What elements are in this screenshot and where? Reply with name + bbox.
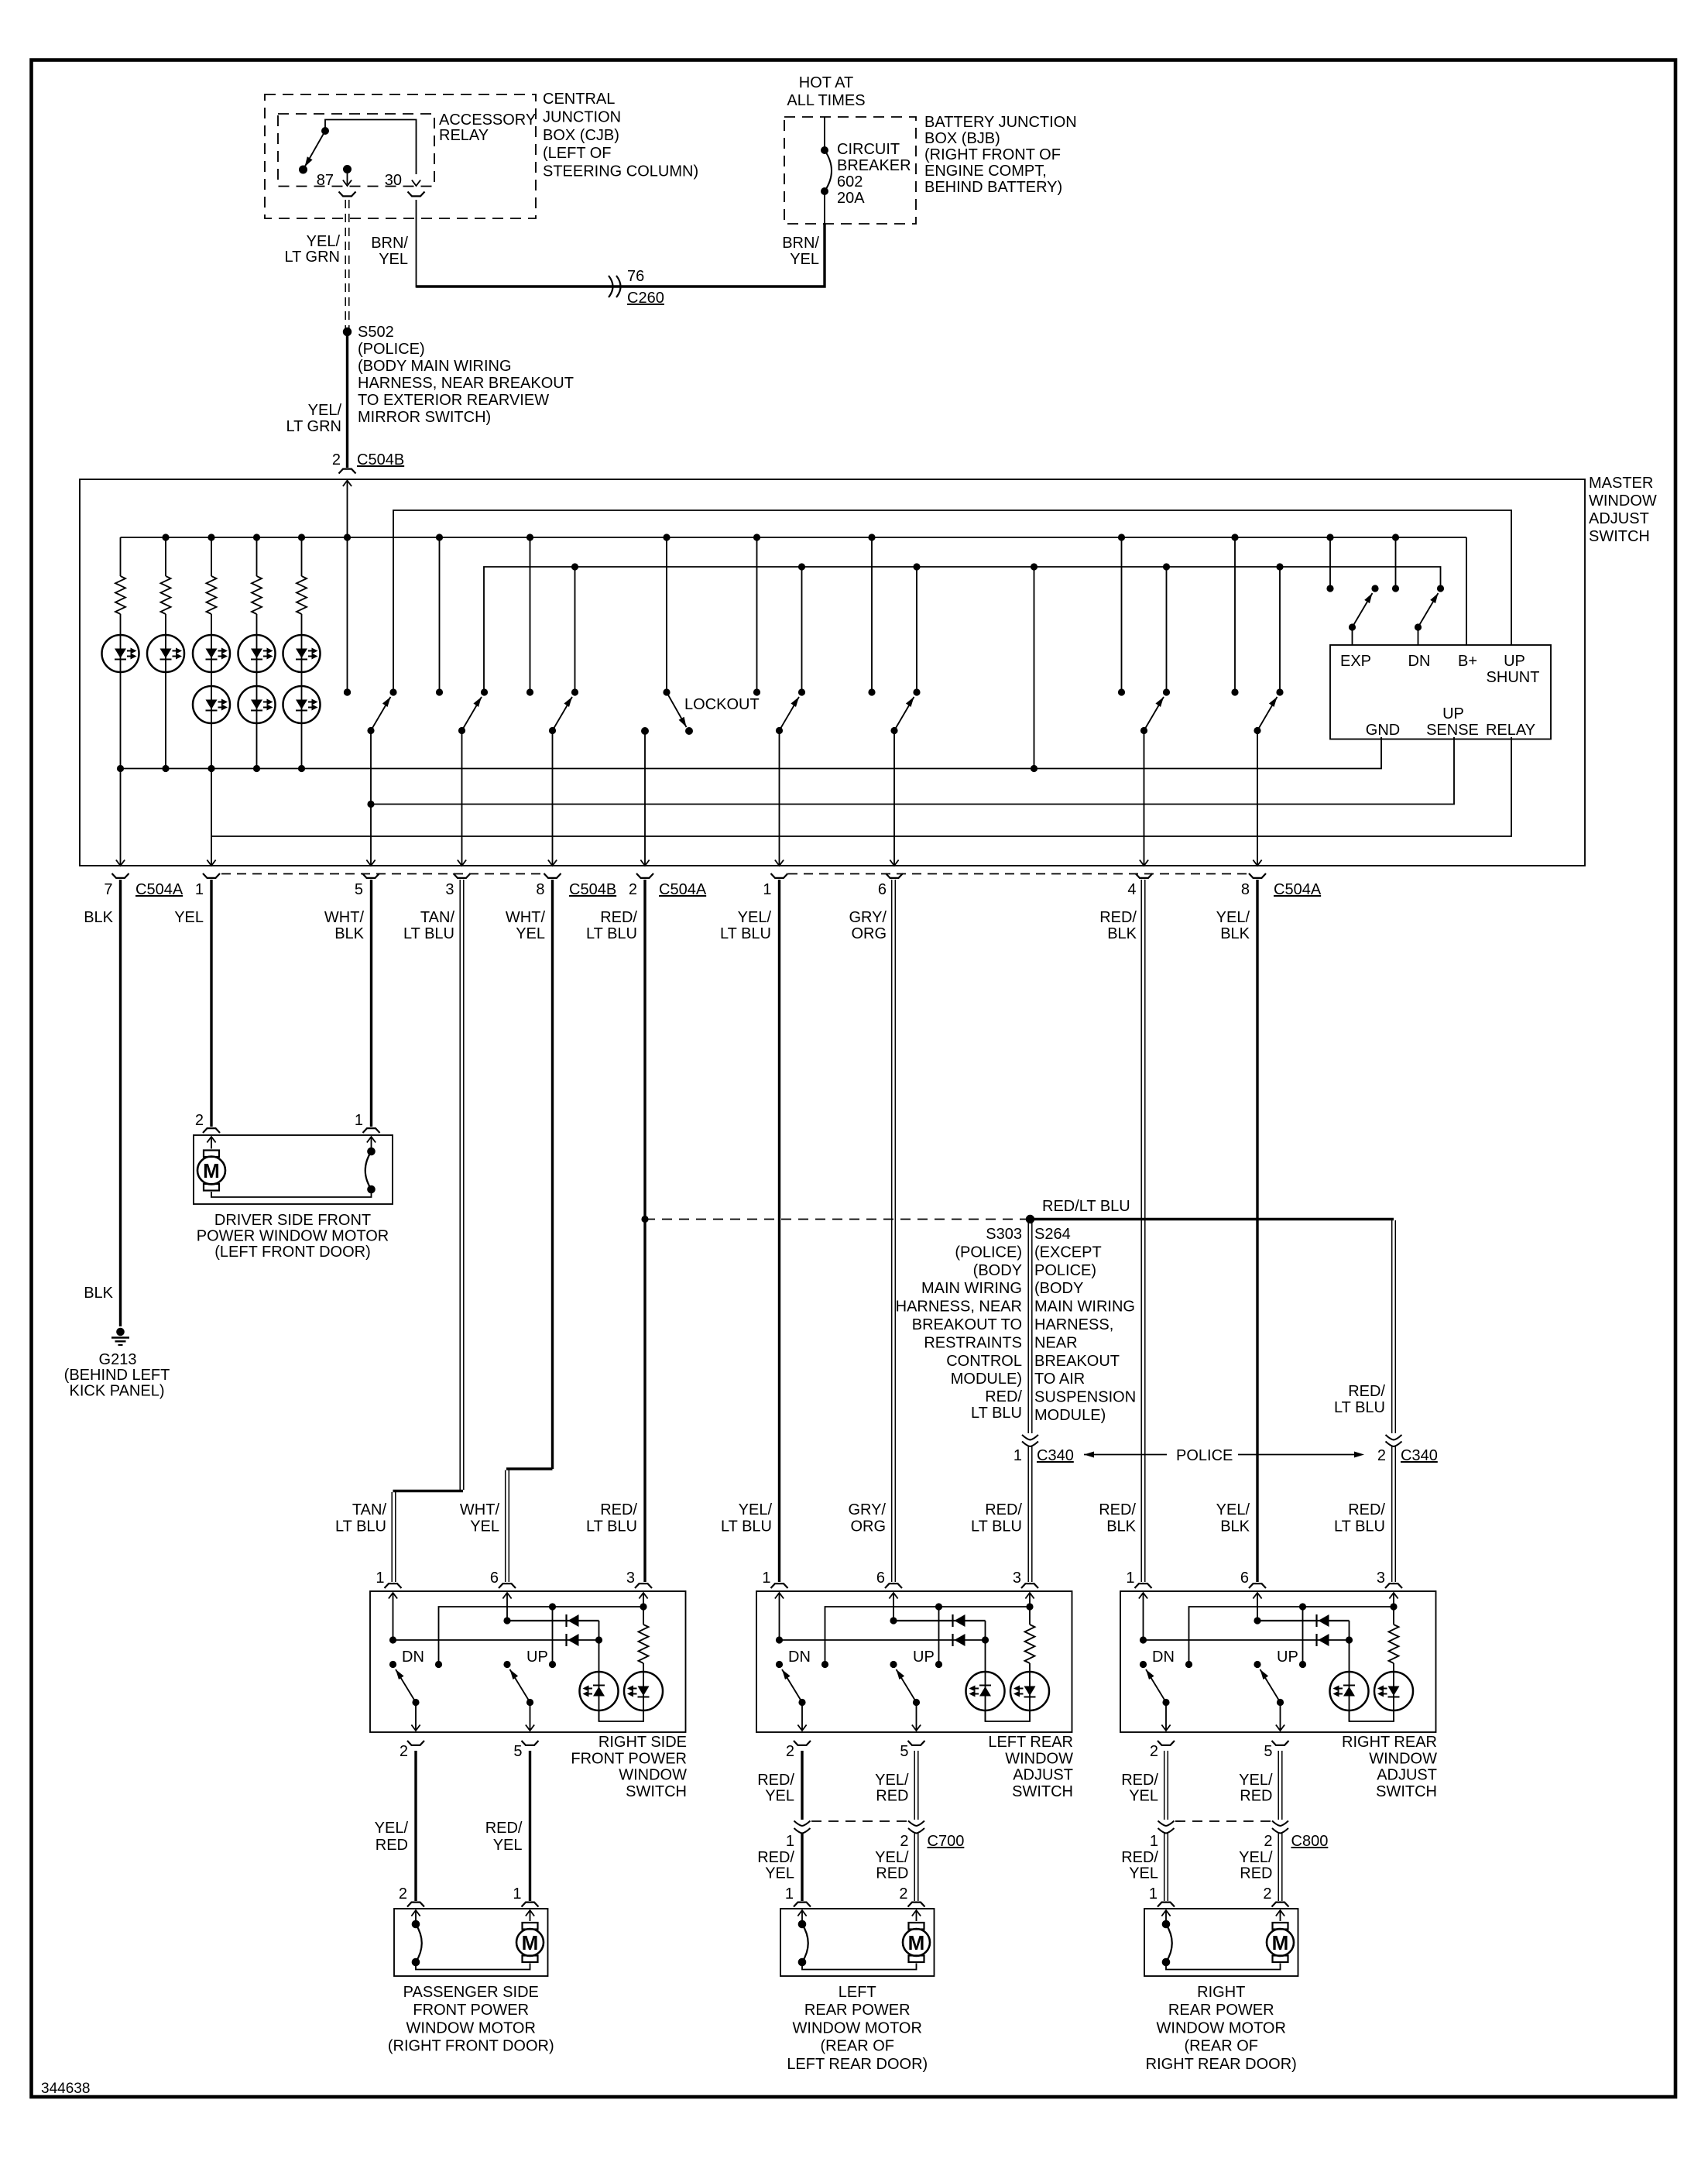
illumination LED D1 row1 [120,614,122,769]
relay line [211,737,1511,836]
relay pin 87 arrow [347,173,348,184]
switch s3 arm [553,697,573,731]
svg-text:BLK: BLK [1220,925,1250,942]
connector dashed line C504B group [221,873,543,875]
left rear motor box [780,1909,935,1976]
svg-text:EXP: EXP [1340,653,1371,670]
passenger front motor pin left bracket [407,1903,424,1907]
svg-text:LT BLU: LT BLU [335,1518,386,1535]
entry wire contact dot [344,688,351,695]
svg-text:LT GRN: LT GRN [285,249,341,266]
svg-text:S502: S502 [358,324,394,341]
up-sense line [371,737,1454,805]
svg-text:KICK PANEL): KICK PANEL) [70,1383,165,1400]
junction dot at ground bus [1031,765,1037,772]
svg-text:C504B: C504B [569,881,616,898]
svg-text:DN: DN [1152,1649,1175,1666]
right rear window switch box [1120,1591,1436,1732]
switch s5 right contact riser [916,567,917,692]
svg-text:LT BLU: LT BLU [1334,1399,1385,1416]
master pin 7 bracket x155 [112,873,129,878]
svg-text:LOCKOUT: LOCKOUT [684,696,760,713]
wire BLK to ground [119,880,122,1326]
switch s3 wire to pin [552,731,554,866]
wire above C800 left [1164,1751,1165,1820]
svg-text:344638: 344638 [41,2081,90,2097]
svg-text:(POLICE): (POLICE) [358,341,425,358]
master pin 5 bracket x479 [362,873,379,878]
driver motor pin2 entry arrow [207,1137,215,1143]
svg-text:(POLICE): (POLICE) [955,1244,1022,1261]
master pin 8 bracket x1624 [1249,873,1266,878]
svg-text:STEERING COLUMN): STEERING COLUMN) [543,163,698,180]
switch s1 pivot [367,727,374,734]
right rear window switch led bottom link [1350,1710,1394,1721]
svg-text:RED/: RED/ [600,1501,637,1518]
svg-text:RED: RED [376,1837,408,1854]
illumination LED D6 row2 [193,686,230,723]
svg-text:BLK: BLK [1220,1518,1250,1535]
svg-text:7: 7 [104,881,112,898]
left rear window switch pin1 entry arrow [775,1593,784,1599]
switch s1 wire to pin [370,731,372,866]
switch s4 pivot [776,727,783,734]
switch s5 left contact riser [871,537,873,692]
svg-text:HOT AT: HOT AT [799,74,853,91]
svg-text:RED/: RED/ [600,909,637,926]
svg-text:ORG: ORG [850,1518,886,1535]
right rear window switch pin2 exit wire [1165,1703,1167,1731]
right front window switch box [370,1591,686,1732]
svg-text:RED/LT BLU: RED/LT BLU [1042,1198,1130,1215]
connector dashed line C504A group [788,873,1249,875]
svg-text:BOX (CJB): BOX (CJB) [543,127,619,144]
svg-text:1: 1 [1126,1570,1134,1587]
wire down from splice to 1 C340 [1027,1220,1029,1433]
svg-text:C260: C260 [627,290,664,307]
svg-text:WINDOW: WINDOW [1369,1750,1437,1767]
svg-text:YEL: YEL [174,909,204,926]
svg-text:RIGHT REAR: RIGHT REAR [1342,1734,1437,1751]
switch s6 wire to pin [1144,731,1145,866]
svg-text:3: 3 [445,881,454,898]
master pin 8 bracket x713 [544,873,561,878]
relay switch K1 wire to pin 30 [325,120,417,175]
svg-text:LEFT REAR: LEFT REAR [988,1734,1073,1751]
svg-text:2: 2 [1377,1447,1386,1464]
circuit breaker CB602 [821,146,828,154]
wire YEL/RED right front switch pin2 to motor [414,1751,417,1901]
svg-text:C340: C340 [1037,1447,1074,1464]
svg-text:RELAY: RELAY [1486,722,1535,739]
svg-text:RED/: RED/ [1348,1501,1385,1518]
svg-text:6: 6 [1240,1570,1249,1587]
svg-text:SWITCH: SWITCH [1376,1783,1437,1800]
left rear window switch DN indicator LED [966,1672,1005,1710]
right front window switch led bottom link [599,1710,644,1721]
left rear motor right entry arrow [912,1910,921,1916]
svg-text:2: 2 [1150,1743,1158,1760]
svg-text:RED/: RED/ [1099,1501,1136,1518]
svg-text:(LEFT FRONT DOOR): (LEFT FRONT DOOR) [214,1244,370,1261]
wire below C700 right [914,1834,915,1902]
switch s4 right contact riser [801,567,803,692]
illumination LED D5 row1 [301,614,303,769]
illumination LED D2 row1 [165,614,166,769]
svg-text:CONTROL: CONTROL [946,1353,1022,1370]
wire second bus to ground bus [1034,567,1035,769]
svg-text:SUSPENSION: SUSPENSION [1034,1389,1136,1406]
wire pin30 down to BRN/YEL run [416,200,417,288]
switch s7 left contact riser [1234,537,1236,692]
svg-text:RED/: RED/ [1348,1383,1385,1400]
left rear window switch up contact riser [938,1607,940,1665]
svg-text:4: 4 [1127,881,1136,898]
svg-text:(RIGHT FRONT OF: (RIGHT FRONT OF [924,146,1061,163]
left rear motor motor M symbol [909,1923,924,1930]
wire WHT/YEL with jog [551,880,554,1469]
illumination LED D4 row1 [256,614,258,769]
svg-text:LT BLU: LT BLU [1334,1518,1385,1535]
svg-text:MASTER: MASTER [1589,475,1653,492]
svg-text:1: 1 [762,1570,770,1587]
master pin 6 bracket x1155 [886,873,903,878]
svg-text:WINDOW MOTOR: WINDOW MOTOR [406,2019,536,2036]
right rear window switch UP indicator LED [1374,1672,1413,1710]
junction dot entry wire at top bus [344,534,351,540]
svg-text:LT GRN: LT GRN [286,418,342,435]
svg-text:76: 76 [627,268,644,285]
right rear window switch dn diode line [1144,1639,1350,1641]
svg-text:MIRROR SWITCH): MIRROR SWITCH) [358,409,491,426]
pin 87 connector bracket [339,192,356,197]
svg-text:BOX (BJB): BOX (BJB) [924,130,1000,147]
up-shunt inner line [393,510,1511,692]
C800 dashed separator [1175,1820,1271,1822]
svg-text:YEL/: YEL/ [1216,1501,1250,1518]
driver side front power window motor box [194,1135,393,1204]
driver motor pin 1 bracket [363,1128,380,1133]
wire YEL to driver motor pin 2 [210,880,212,1127]
switch s2 right contact riser [481,688,488,695]
svg-text:GND: GND [1366,722,1400,739]
svg-text:RED/: RED/ [757,1849,794,1866]
switch s5 pivot [890,727,897,734]
illumination LED D3 row1 [211,614,212,769]
svg-text:REAR POWER: REAR POWER [804,2002,911,2019]
svg-text:6: 6 [490,1570,499,1587]
svg-text:(REAR OF: (REAR OF [1184,2038,1258,2055]
left rear window switch pin 3 bracket [1021,1583,1038,1588]
master window adjust switch box [80,479,1585,866]
svg-text:BRN/: BRN/ [371,235,408,252]
svg-text:B+: B+ [1458,653,1477,670]
svg-text:JUNCTION: JUNCTION [543,108,621,125]
svg-text:602: 602 [837,173,863,190]
svg-text:LT BLU: LT BLU [721,1518,772,1535]
svg-text:5: 5 [1264,1743,1272,1760]
indicator resistor R4 [256,537,258,576]
svg-text:2: 2 [786,1743,794,1760]
svg-text:BLK: BLK [1106,1518,1136,1535]
switch s6 pivot [1140,727,1147,734]
left rear window switch pin 6 bracket [885,1583,902,1588]
svg-text:LT BLU: LT BLU [720,925,771,942]
switch s7 arm [1257,697,1278,731]
svg-text:(BEHIND LEFT: (BEHIND LEFT [64,1367,170,1384]
passenger front motor pin right bracket [522,1903,539,1907]
svg-text:1: 1 [355,1112,363,1129]
right front window switch indicator resistor [643,1607,644,1625]
svg-text:1: 1 [513,1885,521,1903]
wire above C800 right [1278,1751,1279,1820]
C504B top connector bracket [339,469,356,474]
right rear motor right entry arrow [1276,1910,1284,1916]
right rear window switch pin3 entry arrow [1389,1593,1398,1599]
wire RED/LT BLU to right front switch [643,880,646,1582]
svg-text:C504A: C504A [135,881,183,898]
svg-text:LT BLU: LT BLU [586,925,637,942]
right rear window switch pin 3 bracket [1385,1583,1402,1588]
right front window switch led feed wire [598,1621,600,1721]
svg-text:TAN/: TAN/ [420,909,455,926]
wire YEL/LT BLU to left rear switch [778,880,780,1582]
svg-text:ENGINE COMPT,: ENGINE COMPT, [924,163,1047,180]
left rear window switch pin 5 bracket below [908,1741,925,1745]
svg-text:MAIN WIRING: MAIN WIRING [921,1280,1022,1297]
svg-text:UP: UP [1442,705,1464,722]
right rear window switch pin6 entry arrow [1253,1593,1261,1599]
exp pin wire [1352,627,1353,645]
right front window switch pin2 exit wire [415,1703,417,1731]
right rear window switch pin5 exit wire [1280,1703,1281,1731]
svg-text:YEL/: YEL/ [875,1849,909,1866]
police arrow left [1084,1454,1167,1456]
svg-text:BREAKOUT TO: BREAKOUT TO [912,1316,1022,1333]
svg-text:RIGHT: RIGHT [1197,1984,1245,2001]
svg-text:RIGHT REAR DOOR): RIGHT REAR DOOR) [1146,2056,1297,2073]
svg-text:ADJUST: ADJUST [1013,1767,1073,1784]
svg-text:RED: RED [1240,1865,1272,1882]
svg-text:LT BLU: LT BLU [971,1405,1022,1422]
svg-text:5: 5 [900,1743,908,1760]
C800 chevrons left [1158,1821,1175,1827]
svg-text:WINDOW MOTOR: WINDOW MOTOR [793,2019,922,2036]
svg-text:5: 5 [355,881,363,898]
left rear motor internal link [802,1962,917,1970]
left rear window switch UP switch [890,1661,897,1668]
svg-text:1: 1 [786,1833,794,1850]
svg-text:HARNESS, NEAR: HARNESS, NEAR [896,1299,1022,1316]
wire lockout to pin 2 [644,731,646,866]
svg-text:BLK: BLK [334,925,364,942]
svg-text:WINDOW MOTOR: WINDOW MOTOR [1157,2019,1286,2036]
svg-text:DN: DN [1408,653,1431,670]
switch s6 right contact riser [1166,567,1168,692]
svg-text:DN: DN [788,1649,811,1666]
right rear motor pin right bracket [1272,1903,1289,1907]
left rear window switch pin2 exit wire [801,1703,803,1731]
splice S264/S303 dot [1026,1215,1034,1223]
svg-text:MODULE): MODULE) [951,1371,1022,1388]
right rear window switch indicator resistor [1393,1607,1394,1625]
right rear window switch led feed wire [1349,1621,1350,1721]
svg-text:YEL: YEL [765,1865,794,1882]
svg-text:RED/: RED/ [985,1388,1022,1405]
svg-text:ORG: ORG [851,925,887,942]
svg-text:2: 2 [900,1833,908,1850]
master pin 3 bracket x596 [454,873,471,878]
svg-text:UP: UP [913,1649,935,1666]
svg-text:87: 87 [317,172,334,189]
svg-text:SWITCH: SWITCH [1589,528,1650,545]
B+ riser wire [1466,537,1467,645]
right rear motor internal link [1166,1962,1281,1970]
svg-text:2: 2 [332,451,341,468]
wire 2 C340 to right rear switch pin 3 [1391,1446,1393,1582]
junction dot top bus col4 [253,534,260,540]
svg-text:2: 2 [1264,1833,1272,1850]
svg-text:CENTRAL: CENTRAL [543,91,615,108]
svg-text:ALL TIMES: ALL TIMES [787,92,865,109]
svg-text:SHUNT: SHUNT [1487,669,1540,686]
C700 chevrons left [794,1821,811,1827]
switch s5 wire to pin [893,731,895,866]
svg-text:C504A: C504A [659,881,707,898]
svg-text:MAIN WIRING: MAIN WIRING [1034,1299,1135,1316]
svg-text:1: 1 [763,881,771,898]
switch s2 arm [462,697,482,731]
wire below C700 left [801,1834,803,1902]
dn switch arm [1418,593,1439,627]
right rear window switch pin1 entry arrow [1139,1593,1147,1599]
wire YEL/LT GRN dashed (police) pin87 to S502 [345,200,346,328]
svg-text:YEL/: YEL/ [875,1772,909,1789]
right front window switch pin 5 bracket below [522,1741,539,1745]
svg-text:LT BLU: LT BLU [403,925,454,942]
left rear motor left entry arrow [797,1910,806,1916]
svg-text:3: 3 [626,1570,635,1587]
right front window switch pin6 entry arrow [502,1593,511,1599]
window lift relay sub-box [1330,645,1551,739]
right rear window switch UP switch [1254,1661,1260,1668]
right front window switch top internal bus [439,1607,644,1665]
svg-text:(BODY MAIN WIRING: (BODY MAIN WIRING [358,358,512,375]
svg-text:UP: UP [526,1649,548,1666]
svg-text:WINDOW: WINDOW [1589,492,1657,510]
svg-text:POLICE: POLICE [1176,1447,1233,1464]
right rear window switch pin 1 bracket [1135,1583,1152,1588]
driver motor M1 symbol [204,1151,219,1158]
wire YEL/LT GRN S502 to C504B [346,332,348,468]
right rear motor box [1144,1909,1298,1976]
svg-text:M: M [522,1931,539,1954]
svg-text:GRY/: GRY/ [848,1501,886,1518]
exp switch arm [1353,593,1373,627]
exp switch contact risers [1329,537,1331,588]
indicator resistor R5 [301,537,303,576]
svg-text:RED/: RED/ [757,1772,794,1789]
svg-text:RED: RED [876,1865,908,1882]
svg-text:PASSENGER SIDE: PASSENGER SIDE [403,1984,539,2001]
svg-text:G213: G213 [99,1351,137,1368]
right front window switch pin 1 bracket [385,1583,402,1588]
svg-text:BREAKOUT: BREAKOUT [1034,1353,1120,1370]
svg-text:DN: DN [402,1649,424,1666]
svg-text:1: 1 [195,881,204,898]
left rear window switch dn diode line [780,1639,986,1641]
svg-text:RESTRAINTS: RESTRAINTS [924,1334,1022,1351]
wire below C800 right [1278,1834,1279,1902]
wire BRN/YEL from breaker to C260 [824,191,825,224]
svg-text:SENSE: SENSE [1426,722,1479,739]
svg-text:1: 1 [1013,1447,1022,1464]
passenger front motor switch arc [412,1920,420,1929]
svg-text:MODULE): MODULE) [1034,1407,1106,1424]
svg-text:RED: RED [876,1788,908,1805]
svg-text:YEL: YEL [790,251,819,268]
svg-text:C340: C340 [1401,1447,1438,1464]
svg-text:(RIGHT FRONT DOOR): (RIGHT FRONT DOOR) [388,2038,554,2055]
right rear window switch DN switch [1140,1661,1147,1668]
switch s4 left contact riser [756,537,758,692]
svg-text:(EXCEPT: (EXCEPT [1034,1244,1102,1261]
svg-text:C700: C700 [928,1833,965,1850]
svg-text:8: 8 [1241,881,1250,898]
svg-text:6: 6 [876,1570,885,1587]
left rear window switch box [756,1591,1072,1732]
right rear motor left entry arrow [1161,1910,1170,1916]
CJB dashed box (central junction box) [265,94,536,218]
indicator resistor R1 [120,537,122,576]
right front window switch pin1 entry arrow [389,1593,397,1599]
driver motor internal link [211,1189,372,1197]
svg-text:UP: UP [1277,1649,1298,1666]
wire above C700 left [801,1751,803,1820]
dashed branch wire to splice [645,1219,1026,1220]
right rear window switch top internal bus [1189,1607,1394,1665]
right front window switch pin5 exit wire [530,1703,531,1731]
svg-text:BLK: BLK [84,1285,113,1302]
right rear window switch pin 5 bracket below [1272,1741,1289,1745]
junction dot on RED/LT BLU wire [641,1216,648,1223]
svg-text:BLK: BLK [1107,925,1137,942]
left rear window switch up diode line [893,1620,986,1621]
relay pin 87 dot [343,165,352,173]
wire WHT/BLK to driver motor pin 1 [370,880,372,1127]
thick branch wire right [1031,1218,1394,1220]
illumination LED D8 row2 [283,686,321,723]
right front window switch pin 3 bracket [635,1583,652,1588]
svg-text:RELAY: RELAY [439,127,489,144]
passenger front motor right entry arrow [526,1910,534,1916]
lockout switch contact riser [666,537,667,692]
svg-text:WINDOW: WINDOW [1005,1750,1073,1767]
svg-text:YEL/: YEL/ [1239,1772,1273,1789]
relay pin 30 arrow [412,180,420,187]
left rear window switch pin 2 bracket below [794,1741,811,1745]
left rear window switch pin6 entry arrow [889,1593,897,1599]
right front window switch DN indicator LED [580,1672,619,1710]
svg-text:NEAR: NEAR [1034,1334,1078,1351]
switch s1 arm [371,697,391,731]
svg-text:LEFT REAR DOOR): LEFT REAR DOOR) [787,2056,928,2073]
svg-text:YEL/: YEL/ [1239,1849,1273,1866]
pin 30 connector bracket [408,192,425,197]
right front window switch up contact riser [552,1607,554,1665]
svg-text:GRY/: GRY/ [849,909,887,926]
switch s1 left contact riser [344,688,351,695]
